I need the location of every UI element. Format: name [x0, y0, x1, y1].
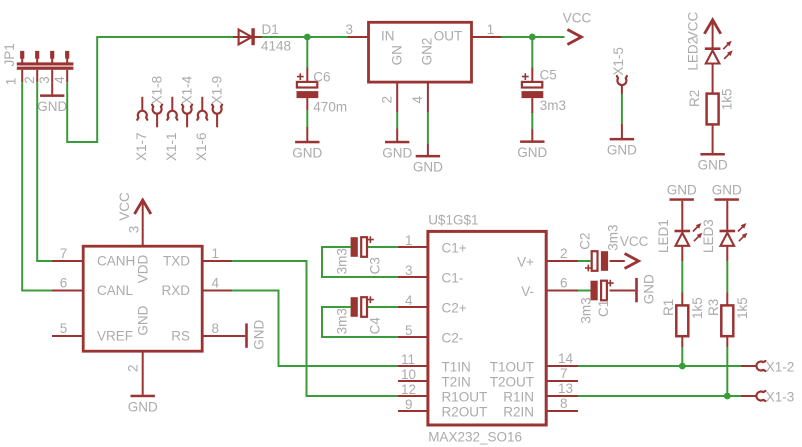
node junction at C6	[304, 34, 311, 41]
svg-text:R2OUT: R2OUT	[442, 404, 488, 419]
led LED3	[726, 201, 728, 230]
MAX232 pin 7 T2OUT	[546, 380, 578, 382]
svg-text:U$1G$1: U$1G$1	[428, 213, 478, 228]
regulator pin 2 GN	[396, 82, 398, 112]
CAN pin 8 RS	[202, 335, 245, 337]
MAX232 pin 14 T1OUT	[546, 365, 578, 367]
svg-text:3: 3	[37, 76, 52, 84]
node junction LED1 net	[679, 363, 686, 370]
svg-text:CANH: CANH	[97, 254, 135, 269]
regulator pin 4 GN2	[427, 82, 429, 112]
svg-text:C6: C6	[313, 70, 330, 85]
svg-text:R1IN: R1IN	[503, 389, 534, 404]
svg-text:GND: GND	[382, 145, 412, 160]
svg-text:R2IN: R2IN	[503, 404, 534, 419]
svg-text:9: 9	[405, 397, 413, 412]
svg-text:OUT: OUT	[434, 29, 463, 44]
svg-text:V+: V+	[517, 254, 534, 269]
svg-text:2: 2	[560, 246, 568, 261]
svg-text:2: 2	[380, 96, 395, 104]
MAX232 pin 5 C2-	[398, 336, 428, 338]
CAN pin 3 VDD with VCC	[142, 202, 144, 247]
pin X1-6	[201, 97, 203, 111]
pin X1-7	[141, 97, 143, 111]
ground under C5	[520, 140, 544, 143]
MAX232 pin 12 R1OUT	[398, 395, 428, 397]
svg-text:D1: D1	[262, 22, 279, 37]
svg-text:T1IN: T1IN	[442, 359, 471, 374]
CAN pin 5 VREF	[52, 335, 83, 337]
wire RXD to T1IN	[232, 291, 398, 367]
svg-text:C2+: C2+	[442, 300, 467, 315]
wire C1+ loop to C1-	[368, 246, 398, 248]
regulator pin 3 IN	[348, 36, 369, 38]
led LED2	[712, 22, 714, 48]
MAX232 pin 3 C1-	[398, 276, 428, 278]
regulator pin 1 OUT	[472, 36, 502, 38]
wire R3 to X1-3 net	[726, 347, 728, 396]
ground above LED1	[670, 198, 694, 201]
svg-text:3: 3	[405, 263, 413, 278]
svg-text:470m: 470m	[313, 99, 347, 114]
svg-text:T2IN: T2IN	[442, 374, 471, 389]
ground under JP1 pin 3	[51, 82, 53, 94]
svg-text:X1-6: X1-6	[194, 132, 209, 161]
svg-text:13: 13	[558, 381, 573, 396]
ground under regulator pin 4	[416, 155, 440, 158]
svg-text:12: 12	[401, 382, 416, 397]
capacitor C4 3m3	[367, 296, 374, 303]
MAX232 pin 11 T1IN	[398, 365, 428, 367]
CAN pin 4 RXD	[202, 290, 232, 292]
svg-text:1k5: 1k5	[719, 89, 734, 111]
MAX232 pin 13 R1IN	[546, 395, 578, 397]
svg-text:CANL: CANL	[97, 283, 134, 298]
MAX232 pin 6 V-	[546, 290, 578, 292]
svg-text:GND: GND	[252, 320, 267, 350]
svg-text:R1: R1	[661, 299, 676, 316]
svg-text:1k5: 1k5	[690, 297, 705, 319]
svg-text:C3: C3	[367, 257, 382, 274]
ground above LED3	[715, 198, 739, 201]
svg-text:3m3: 3m3	[334, 308, 349, 334]
pin X1-1	[171, 97, 173, 111]
svg-text:V-: V-	[521, 284, 534, 299]
svg-text:T1OUT: T1OUT	[490, 359, 534, 374]
svg-text:3m3: 3m3	[578, 297, 593, 323]
svg-text:GN2: GN2	[419, 38, 434, 66]
svg-text:X1-1: X1-1	[164, 132, 179, 161]
svg-text:RS: RS	[171, 329, 190, 344]
capacitor C2 3m3 at V+	[578, 260, 590, 262]
svg-text:C5: C5	[540, 68, 557, 83]
wire JP1-2 to CANH	[37, 82, 52, 261]
svg-text:VDD: VDD	[136, 254, 151, 283]
svg-text:X1-7: X1-7	[134, 132, 149, 161]
svg-text:8: 8	[560, 396, 568, 411]
CAN transceiver U1	[83, 246, 202, 351]
ground at C1	[635, 278, 638, 302]
led LED1	[681, 201, 683, 230]
svg-text:6: 6	[560, 276, 568, 291]
svg-text:4: 4	[52, 76, 67, 84]
svg-text:7: 7	[60, 246, 68, 261]
svg-text:MAX232_SO16: MAX232_SO16	[428, 429, 522, 444]
ic U$1G$1 MAX232_SO16	[428, 231, 546, 425]
svg-text:R2: R2	[687, 90, 702, 107]
MAX232 pin 9 R2OUT	[398, 410, 428, 412]
wire T1OUT to X1-2	[578, 365, 741, 367]
svg-text:IN: IN	[381, 29, 395, 44]
svg-text:8: 8	[212, 321, 220, 336]
svg-text:T2OUT: T2OUT	[490, 374, 534, 389]
wire OUT to VCC	[502, 36, 565, 38]
svg-text:GN: GN	[390, 45, 405, 65]
CAN pin 6 CANL	[52, 290, 83, 292]
svg-text:10: 10	[401, 367, 416, 382]
svg-text:3m3: 3m3	[540, 98, 566, 113]
svg-text:4: 4	[212, 276, 220, 291]
svg-text:TXD: TXD	[163, 254, 190, 269]
svg-text:1: 1	[3, 78, 18, 86]
svg-text:2: 2	[22, 76, 37, 84]
MAX232 pin 10 T2IN	[398, 380, 428, 382]
node junction at C5	[529, 34, 536, 41]
svg-text:X1-3: X1-3	[766, 389, 795, 404]
ground under X1-5	[610, 138, 634, 141]
svg-text:LED3: LED3	[701, 219, 716, 253]
svg-text:GND: GND	[667, 183, 697, 198]
voltage regulator IC	[369, 22, 472, 82]
svg-text:3m3: 3m3	[334, 248, 349, 274]
svg-text:X1-2: X1-2	[766, 359, 795, 374]
svg-text:GND: GND	[128, 399, 158, 414]
svg-text:2: 2	[126, 364, 141, 372]
svg-text:7: 7	[560, 366, 568, 381]
svg-text:1: 1	[405, 233, 413, 248]
svg-text:GND: GND	[607, 143, 637, 158]
wire D1 to regulator IN	[262, 36, 348, 38]
svg-text:3: 3	[127, 226, 142, 234]
ground under CAN pin 2	[131, 395, 155, 398]
svg-text:X1-8: X1-8	[149, 76, 164, 105]
svg-text:C1: C1	[596, 300, 611, 317]
svg-text:4: 4	[410, 96, 425, 104]
svg-text:C2: C2	[577, 233, 592, 250]
CAN pin 1 TXD	[202, 260, 232, 262]
svg-text:5: 5	[60, 321, 68, 336]
svg-text:GND: GND	[698, 158, 728, 173]
pin X1-3	[741, 395, 756, 397]
svg-text:GND: GND	[136, 305, 151, 335]
ground under R2	[700, 153, 724, 156]
svg-text:GND: GND	[37, 99, 67, 114]
svg-text:GND: GND	[292, 145, 322, 160]
svg-text:VCC: VCC	[563, 11, 592, 26]
svg-text:GND: GND	[517, 145, 547, 160]
wire JP1-1 to CANL	[22, 82, 52, 290]
svg-text:5: 5	[405, 323, 413, 338]
svg-text:R1OUT: R1OUT	[442, 389, 488, 404]
supply VCC at regulator output	[567, 30, 581, 45]
MAX232 pin 4 C2+	[398, 306, 428, 308]
capacitor C1 3m3 at V-	[578, 290, 592, 292]
svg-text:VCC: VCC	[620, 234, 649, 249]
svg-text:6: 6	[60, 276, 68, 291]
MAX232 pin 8 R2IN	[546, 410, 578, 412]
capacitor C5 3m3	[531, 37, 533, 68]
svg-text:4148: 4148	[261, 39, 291, 54]
svg-text:VCC: VCC	[117, 192, 132, 221]
wire R1 to X1-2 net	[681, 347, 683, 366]
capacitor C3 3m3	[367, 236, 374, 243]
wire R1IN to X1-3	[578, 395, 741, 397]
svg-text:X1-5: X1-5	[611, 47, 626, 76]
svg-text:GND: GND	[413, 160, 443, 175]
svg-text:14: 14	[558, 351, 574, 366]
svg-text:1: 1	[487, 22, 495, 37]
connector JP1	[20, 51, 24, 59]
svg-text:11: 11	[401, 352, 415, 367]
svg-text:C1+: C1+	[442, 240, 467, 255]
svg-text:C1-: C1-	[442, 270, 464, 285]
node junction LED3 net	[724, 393, 731, 400]
svg-text:VCC: VCC	[685, 12, 700, 41]
CAN pin 7 CANH	[52, 260, 83, 262]
svg-text:JP1: JP1	[2, 43, 17, 66]
svg-text:GND: GND	[712, 183, 742, 198]
svg-text:LED1: LED1	[656, 219, 671, 253]
ground at RS pin	[245, 323, 248, 347]
CAN pin 2 GND	[142, 351, 144, 395]
svg-text:LED2: LED2	[685, 37, 700, 71]
svg-text:3m3: 3m3	[606, 225, 621, 251]
svg-text:4: 4	[405, 293, 413, 308]
supply VCC at V+	[625, 254, 639, 269]
svg-text:1: 1	[212, 246, 220, 261]
MAX232 pin 2 V+	[546, 260, 578, 262]
pin X1-2	[741, 365, 756, 367]
svg-text:RXD: RXD	[161, 283, 190, 298]
diode D1 4148	[233, 36, 262, 38]
wire C2+ loop to C2-	[368, 306, 398, 308]
svg-text:C2-: C2-	[442, 330, 464, 345]
svg-text:C4: C4	[367, 317, 382, 335]
svg-text:X1-9: X1-9	[209, 76, 224, 105]
ground under regulator pin 2	[385, 141, 409, 144]
svg-text:3: 3	[346, 22, 354, 37]
svg-text:X1-4: X1-4	[179, 75, 194, 104]
wire TXD to R1OUT	[232, 261, 398, 396]
MAX232 pin 1 C1+	[398, 246, 428, 248]
wire JP1-4 to D1 anode	[67, 37, 233, 142]
svg-text:R3: R3	[706, 299, 721, 316]
svg-text:VREF: VREF	[97, 329, 133, 344]
capacitor C6 470m	[306, 37, 308, 68]
svg-text:GND: GND	[642, 274, 657, 304]
ground under C6	[295, 141, 319, 144]
svg-text:1k5: 1k5	[735, 297, 750, 319]
